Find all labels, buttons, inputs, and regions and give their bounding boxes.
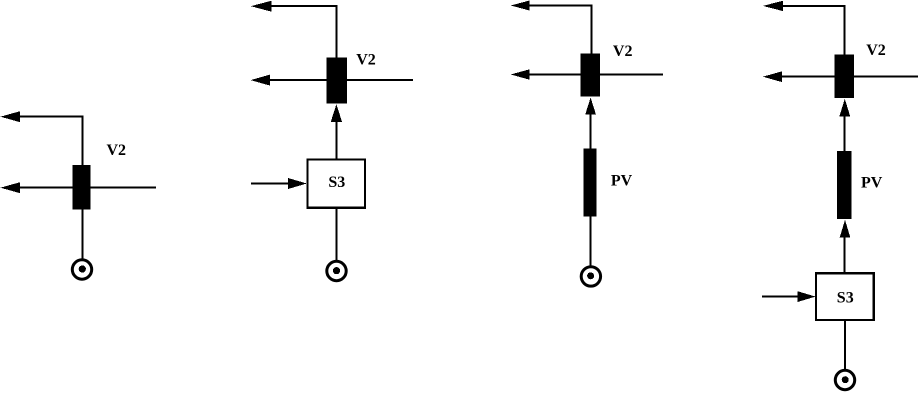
valve V2 body (diagram 2) xyxy=(327,58,347,104)
wire D2 vertical from S3 box to valve arrow xyxy=(336,121,338,160)
wire D3 middle horizontal line xyxy=(524,74,663,76)
wire D2 top output line xyxy=(265,5,338,7)
arrowhead D3 middle-left xyxy=(511,69,530,79)
arrowhead D4 into S3 xyxy=(798,291,816,302)
wire D3 vertical from top corner to valve xyxy=(590,5,592,54)
node source dot (diagram 2) xyxy=(333,267,340,274)
svg-text:PV: PV xyxy=(611,173,633,190)
wire D4 vertical from S3 to source node xyxy=(844,320,846,369)
svg-text:V2: V2 xyxy=(613,43,633,60)
wire D3 top output line xyxy=(524,5,592,7)
wire D3 vertical from PV to source node xyxy=(590,217,592,266)
arrowhead D2 into S3 xyxy=(288,178,307,189)
valve V2 body (diagram 1) xyxy=(73,165,91,210)
arrowhead D2 up into valve xyxy=(331,104,342,122)
box S3 (diagram 2) xyxy=(307,159,365,207)
arrowhead D4 top-left xyxy=(763,1,783,11)
arrowhead D2 top-left xyxy=(251,1,272,12)
wire D3 vertical from PV to valve arrow xyxy=(590,114,592,150)
wire D4 vertical from PV to valve arrow xyxy=(844,116,846,152)
svg-text:PV: PV xyxy=(861,174,883,191)
node source dot (diagram 1) xyxy=(79,265,86,272)
wire D4 input line into S3 xyxy=(762,296,801,298)
node source circle (diagram 2) xyxy=(327,261,346,280)
arrowhead D4 middle-left xyxy=(763,71,782,82)
arrowhead D1 top-left xyxy=(1,111,21,122)
wire D2 input line into S3 xyxy=(251,183,292,185)
node source dot (diagram 4) xyxy=(842,376,849,383)
wire D4 middle horizontal line xyxy=(776,76,918,78)
arrowhead D2 middle-left xyxy=(251,75,270,86)
wire D2 vertical from top corner to valve xyxy=(336,5,338,58)
wire D4 top output line xyxy=(777,5,846,7)
process variable PV bar (diagram 3) xyxy=(584,149,597,217)
wire D1 vertical from top corner to valve xyxy=(81,116,83,166)
node source dot (diagram 3) xyxy=(587,272,594,279)
svg-text:V2: V2 xyxy=(866,42,886,59)
node source circle (diagram 1) xyxy=(72,260,91,279)
arrowhead D3 top-left xyxy=(511,1,530,11)
arrowhead D1 middle-left xyxy=(1,182,21,193)
box S3 (diagram 4) xyxy=(816,273,874,320)
svg-text:V2: V2 xyxy=(356,52,376,69)
wire D2 vertical from S3 to source node xyxy=(336,208,338,260)
valve V2 body (diagram 3) xyxy=(580,54,599,97)
process variable PV bar (diagram 4) xyxy=(837,151,852,219)
svg-text:S3: S3 xyxy=(837,289,854,306)
valve V2 body (diagram 4) xyxy=(835,55,854,98)
wire D2 middle horizontal line xyxy=(264,79,413,81)
wire D4 vertical from top corner to valve xyxy=(844,5,846,55)
wire D1 top output line xyxy=(14,116,83,118)
arrowhead D4 up into valve xyxy=(839,99,850,117)
wire D4 vertical from S3 box to PV arrow xyxy=(844,237,846,274)
wire D1 vertical from valve to source node xyxy=(81,210,83,259)
arrowhead D4 up into PV xyxy=(840,220,851,238)
arrowhead D3 up into valve xyxy=(585,98,596,115)
wire D1 middle horizontal line xyxy=(14,187,156,189)
node source circle (diagram 3) xyxy=(581,267,600,286)
node source circle (diagram 4) xyxy=(835,370,854,389)
svg-text:S3: S3 xyxy=(328,174,345,191)
svg-text:V2: V2 xyxy=(107,142,127,159)
